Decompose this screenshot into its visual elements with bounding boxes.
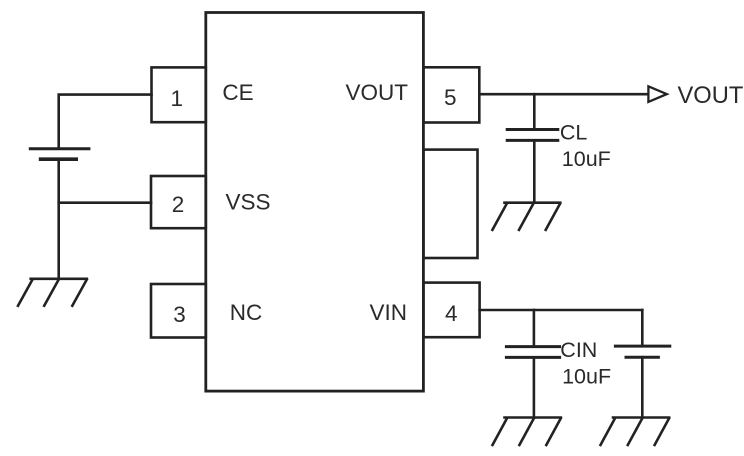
ground (input) bbox=[601, 418, 670, 446]
wire CIN lower bbox=[533, 357, 536, 417]
svg-text:VOUT: VOUT bbox=[346, 80, 409, 105]
ground (CIN) bbox=[493, 418, 561, 446]
node VOUT arrow bbox=[648, 86, 666, 102]
svg-text:VIN: VIN bbox=[370, 300, 408, 325]
battery B2 input supply bbox=[615, 346, 669, 357]
svg-text:10uF: 10uF bbox=[562, 147, 611, 171]
svg-text:CL: CL bbox=[560, 121, 588, 145]
wire pin 4 to input branch bbox=[480, 309, 643, 312]
wire node to pin 2 bbox=[59, 201, 151, 204]
svg-text:2: 2 bbox=[172, 192, 185, 217]
tab pad box bbox=[423, 150, 477, 258]
svg-text:5: 5 bbox=[444, 85, 457, 110]
svg-text:VOUT: VOUT bbox=[678, 83, 744, 109]
wire pin 5 to VOUT arrow bbox=[479, 93, 648, 96]
battery BT1 bbox=[30, 149, 89, 160]
svg-text:10uF: 10uF bbox=[562, 365, 611, 389]
pin 3 box bbox=[151, 284, 206, 338]
wire CL lower bbox=[533, 140, 536, 202]
svg-text:CE: CE bbox=[222, 80, 253, 105]
svg-text:1: 1 bbox=[171, 86, 184, 111]
pin 4 box bbox=[423, 283, 479, 338]
wire CL branch upper bbox=[533, 94, 536, 129]
capacitor CL bbox=[507, 130, 558, 141]
ground (CL) bbox=[492, 203, 560, 230]
pin 2 box bbox=[151, 176, 206, 228]
svg-text:3: 3 bbox=[173, 302, 186, 327]
IC U1 regulator body bbox=[206, 13, 424, 392]
svg-text:4: 4 bbox=[445, 301, 458, 326]
wire battery B2 upper bbox=[641, 310, 644, 346]
ground (battery) bbox=[18, 279, 87, 306]
pin 5 box bbox=[423, 67, 479, 122]
wire battery B2 lower bbox=[641, 357, 644, 417]
capacitor CIN bbox=[506, 347, 559, 358]
svg-text:VSS: VSS bbox=[226, 189, 271, 214]
svg-text:CIN: CIN bbox=[560, 338, 597, 362]
svg-text:NC: NC bbox=[230, 300, 262, 325]
wire battery bottom to ground bbox=[57, 159, 60, 279]
wire battery top to pin 1 bbox=[59, 95, 152, 149]
wire CIN branch upper bbox=[533, 310, 536, 347]
pin 1 box bbox=[152, 67, 206, 122]
